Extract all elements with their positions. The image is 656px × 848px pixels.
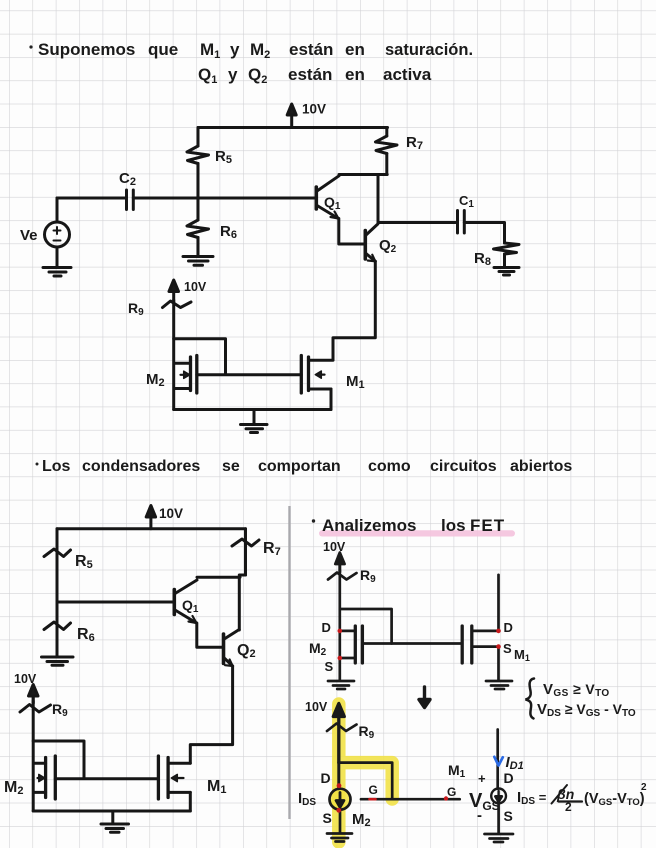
wire M1 source down (497, 647, 500, 680)
ground below R8 (494, 268, 519, 276)
note: Los condensadores se comportan como circuitos abiertos (36, 458, 573, 475)
mosfet M1 simplified (462, 626, 498, 663)
svg-text:los: los (441, 516, 466, 535)
transistor Q1 (174, 580, 197, 623)
supply 10V arrow mirror branch (169, 280, 179, 302)
svg-text:condensadores: condensadores (82, 458, 200, 475)
arrow big down (419, 687, 430, 708)
resistor R5 (187, 128, 209, 198)
resistor R9 (20, 701, 51, 811)
pin S of M2 current-source sketch (323, 808, 342, 826)
wire node to Q1 base (57, 601, 174, 604)
pin D of M2 current-source sketch (321, 770, 342, 788)
capacitor C2 (127, 190, 134, 210)
transistor Q2 (365, 224, 378, 261)
svg-text:2: 2 (565, 800, 572, 814)
wire gate-drain tie FET sketch (340, 609, 392, 644)
svg-text:saturación.: saturación. (385, 41, 473, 59)
wire bottom rail sources (174, 408, 331, 411)
note line 1: Suponemos que M1 y M2 estan en saturacion (29, 40, 473, 61)
ground below current source M1 (485, 834, 514, 842)
ground below mirror (101, 811, 129, 832)
svg-text:están: están (289, 40, 333, 59)
wire mirror gate-drain tie (174, 339, 226, 374)
pin D of M1 (496, 620, 513, 635)
svg-text:Ve: Ve (20, 227, 38, 244)
mosfet M1 (301, 356, 333, 394)
pin D of M2 (322, 620, 343, 635)
svg-text:10V: 10V (302, 102, 326, 117)
wire M2 source to ground (339, 810, 342, 833)
pin G of M2 current-source sketch (369, 783, 378, 799)
svg-text:S: S (325, 659, 334, 674)
svg-text:2: 2 (641, 782, 647, 793)
svg-text:G: G (369, 783, 378, 797)
mosfet M2 simplified (340, 626, 363, 663)
wire R7 to Q2 collector (239, 575, 245, 630)
ground below Ve (43, 268, 71, 277)
svg-text:-: - (477, 807, 482, 824)
wire mirror gate-drain tie (33, 741, 84, 779)
highlight yellow marker path (339, 704, 392, 842)
wire Q1 emitter to Q2 base (197, 623, 224, 647)
svg-text:D: D (504, 620, 513, 635)
svg-text:10V: 10V (305, 700, 328, 714)
svg-text:Suponemos: Suponemos (38, 40, 135, 59)
ground below M2 FET sketch (328, 681, 354, 689)
ground below M1 FET sketch (486, 681, 512, 689)
capacitor C1 (458, 211, 465, 234)
wire M1 source down (330, 389, 333, 410)
svg-text:S: S (504, 808, 513, 824)
supply 10V arrow top circuit (287, 104, 296, 128)
svg-text:abiertos: abiertos (510, 458, 572, 475)
transistor Q2 (224, 630, 240, 667)
pin S of M1 (496, 641, 512, 656)
supply 10V arrow FET sketch (335, 553, 344, 573)
wire M1 source to ground (497, 803, 500, 832)
brace conditions (526, 679, 535, 719)
wire bottom rail sources (33, 810, 190, 813)
mosfet M2 (34, 756, 56, 799)
annotation VGS purple (469, 771, 500, 824)
wire top supply rail (198, 126, 388, 129)
pin S of M2 (325, 656, 343, 674)
resistor R6 (187, 198, 209, 253)
svg-text:que: que (148, 40, 178, 59)
resistor R7 (232, 529, 259, 575)
supply 10V arrow current-source sketch (333, 704, 344, 763)
wire Q2 emitter down to M1 drain (333, 261, 375, 360)
source Ve (45, 198, 70, 266)
svg-text:activa: activa (383, 65, 432, 84)
divider vertical rule (288, 506, 290, 819)
resistor R7 (376, 128, 398, 175)
svg-text:están: están (288, 65, 332, 84)
svg-text:10V: 10V (159, 506, 183, 521)
resistor R8 (494, 243, 520, 267)
wire gate line FET sketch (362, 642, 462, 645)
wire M1 source down (189, 792, 192, 811)
resistor R6 (44, 602, 71, 652)
svg-text:S: S (323, 810, 332, 826)
wire gate line M2-M1 (197, 373, 301, 376)
wire Q1 collector line (197, 576, 240, 579)
ground below mirror (241, 410, 268, 433)
wire C1 to R8 (464, 223, 504, 244)
mosfet M1 (158, 756, 190, 799)
formula IDs equation (517, 782, 647, 814)
svg-text:10V: 10V (323, 540, 346, 554)
svg-text:D: D (504, 770, 514, 786)
wire collector node down (377, 175, 380, 223)
svg-text:como: como (368, 458, 411, 475)
wire M1 drain up (497, 575, 500, 631)
svg-text:S: S (503, 641, 512, 656)
svg-text:y: y (230, 40, 240, 59)
resistor R9 FET sketch (328, 570, 357, 680)
wire output node to C1 (378, 221, 456, 224)
resistor R5 (44, 529, 71, 602)
wire M1 drain vertical (496, 730, 499, 789)
heading: Analizemos los FET (312, 516, 505, 535)
current source IDs M2 (330, 789, 351, 810)
ground below current source M2 (327, 834, 352, 842)
svg-text:Analizemos: Analizemos (322, 516, 416, 535)
ground below R6 (183, 252, 213, 265)
ground below R6 (42, 652, 74, 665)
svg-text:y: y (228, 65, 238, 84)
current source ID1 M1 (491, 789, 506, 804)
supply 10V arrow bottom-left (146, 506, 155, 529)
svg-text:comportan: comportan (258, 458, 341, 475)
pin G of M1 current-source sketch (444, 785, 457, 801)
wire Q2 emitter to M1 drain (190, 666, 232, 763)
transistor Q1 (316, 176, 339, 219)
wire gate line current-source sketch (361, 798, 460, 801)
svg-text:FET: FET (470, 516, 505, 535)
highlight pink under heading (319, 530, 515, 536)
svg-text:Los: Los (42, 458, 71, 475)
wire gate tie current-source sketch (339, 763, 392, 800)
svg-text:D: D (321, 770, 331, 786)
wire top rail bottom-left (57, 527, 246, 530)
wire gate line M2-M1 (55, 777, 158, 780)
wire C2 to Q1 base (133, 197, 316, 200)
svg-text:D: D (322, 620, 331, 635)
svg-text:G: G (447, 785, 456, 799)
svg-text:en: en (345, 40, 365, 59)
wire Q1 emitter to Q2 base (339, 219, 366, 245)
mosfet M2 (174, 356, 196, 394)
svg-text:se: se (222, 458, 240, 475)
svg-text:10V: 10V (184, 280, 207, 294)
note line 2: Q1 y Q2 estan en activa (198, 65, 432, 86)
supply 10V arrow bottom-left mirror (29, 685, 39, 704)
resistor R9 (163, 300, 192, 410)
wire Ve to C2 (57, 197, 127, 200)
wire Q1 collector rail (339, 173, 387, 176)
resistor R9 current-source sketch (327, 724, 357, 789)
svg-text:+: + (478, 771, 486, 786)
svg-text:circuitos: circuitos (430, 458, 497, 475)
svg-text:en: en (345, 65, 365, 84)
svg-text:10V: 10V (14, 672, 37, 686)
current arrow ID1 blue (494, 754, 523, 772)
